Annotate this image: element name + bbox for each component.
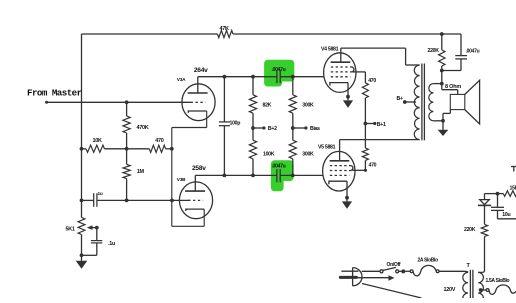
svg-text:.0047u: .0047u: [466, 49, 480, 55]
svg-text:15K: 15K: [510, 186, 516, 192]
svg-text:100K: 100K: [263, 152, 275, 158]
svg-text:264v: 264v: [194, 67, 208, 74]
svg-text:258v: 258v: [192, 165, 206, 172]
svg-text:100p: 100p: [230, 120, 241, 126]
svg-text:470: 470: [155, 138, 164, 144]
svg-text:8 Ohm: 8 Ohm: [445, 84, 461, 90]
svg-text:.0047u: .0047u: [272, 67, 286, 73]
svg-text:Bias: Bias: [310, 126, 320, 132]
svg-text:1.5A SloBlo: 1.5A SloBlo: [486, 278, 510, 284]
svg-text:B+1: B+1: [377, 122, 386, 128]
svg-text:220K: 220K: [428, 48, 440, 54]
svg-text:On/Off: On/Off: [387, 262, 401, 268]
svg-text:From Master: From Master: [27, 87, 82, 98]
svg-text:47K: 47K: [220, 26, 230, 32]
svg-text:120V: 120V: [444, 287, 456, 293]
svg-text:B+: B+: [397, 96, 403, 102]
svg-text:470K: 470K: [137, 125, 149, 131]
svg-text:V3A: V3A: [177, 77, 186, 83]
svg-text:470: 470: [369, 163, 377, 169]
svg-text:V5 5881: V5 5881: [318, 145, 336, 151]
svg-text:10u: 10u: [502, 212, 510, 218]
svg-text:470: 470: [368, 78, 376, 84]
svg-text:B+2: B+2: [268, 126, 277, 132]
svg-text:1u: 1u: [98, 191, 103, 197]
svg-text:82K: 82K: [263, 102, 272, 108]
svg-text:5K1: 5K1: [66, 227, 75, 233]
svg-text:.1u: .1u: [108, 241, 115, 247]
svg-text:.0047u: .0047u: [272, 164, 286, 170]
svg-text:220K: 220K: [464, 227, 476, 233]
svg-text:300K: 300K: [302, 102, 314, 108]
svg-text:V4 5881: V4 5881: [321, 47, 339, 53]
svg-text:1M: 1M: [137, 169, 145, 175]
svg-text:2A SloBlo: 2A SloBlo: [418, 258, 439, 264]
svg-text:10K: 10K: [93, 138, 103, 144]
svg-text:300K: 300K: [302, 151, 314, 157]
svg-text:V3B: V3B: [177, 177, 186, 183]
